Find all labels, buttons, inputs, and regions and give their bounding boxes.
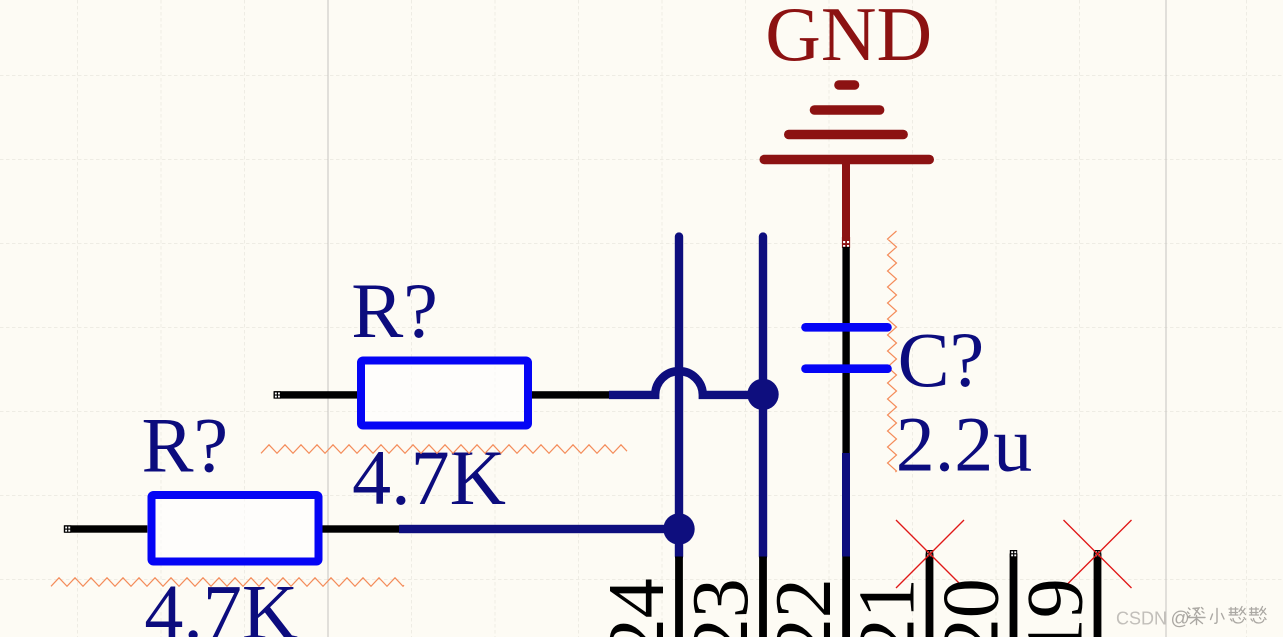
wire pin 24 net vertical (navy) <box>675 237 683 557</box>
svg-text:C?: C? <box>898 316 985 403</box>
junction at R1/pin23 <box>747 379 778 410</box>
svg-text:21: 21 <box>844 578 932 637</box>
wire cap bottom to pin 22 (navy) <box>842 453 850 557</box>
svg-text:@: @ <box>1171 608 1190 629</box>
pin 20 endpoint marker <box>1010 550 1017 557</box>
svg-text:4.7K: 4.7K <box>352 434 506 521</box>
wire pin 23 net vertical (navy) <box>759 237 767 557</box>
no-ERC cross on pin 21 <box>896 520 964 588</box>
pin 22 lead (black) <box>842 557 850 637</box>
no-ERC cross on pin 19 <box>1064 520 1132 588</box>
wire GND net vertical (black) <box>842 247 849 453</box>
pin 19 endpoint marker <box>1094 550 1101 557</box>
resistor R1 body <box>361 361 528 426</box>
wire R1 right to junction (navy) with hop over pin24 wire <box>609 371 763 395</box>
svg-text:R?: R? <box>142 402 229 489</box>
svg-text:24: 24 <box>593 578 681 637</box>
svg-text:2.2u: 2.2u <box>896 401 1033 488</box>
svg-text:22: 22 <box>760 578 848 637</box>
svg-text:19: 19 <box>1012 578 1100 637</box>
pin 20 lead (black) <box>1010 554 1018 637</box>
svg-text:CSDN: CSDN <box>1116 608 1167 628</box>
junction marker on GND stem <box>842 237 850 248</box>
squiggle right of capacitor <box>888 231 897 472</box>
watermark hanzi xiao <box>1211 609 1225 624</box>
wire R2 right (black) <box>322 525 399 532</box>
wire R1 right (black) <box>531 391 609 398</box>
pin 23 lead (black) <box>759 557 767 637</box>
svg-text:23: 23 <box>677 578 765 637</box>
pin 21 lead (black) <box>926 554 934 637</box>
svg-text:R?: R? <box>351 267 438 354</box>
pin 24 lead (black) <box>675 557 683 637</box>
watermark hanzi liang <box>1188 608 1206 625</box>
pin 21 endpoint marker <box>926 550 933 557</box>
power port GND <box>764 0 932 238</box>
junction at pin24 net <box>663 513 694 544</box>
resistor R2 body <box>152 495 319 562</box>
wire R2 right to junction (navy) <box>399 525 679 533</box>
pin 19 lead (black) <box>1094 554 1102 637</box>
endpoint marker wire R2 left <box>64 525 71 532</box>
wire R1 left (black) <box>274 391 358 398</box>
wire R2 left (black) <box>64 525 147 532</box>
capacitor C? <box>806 327 888 368</box>
svg-text:GND: GND <box>765 0 932 77</box>
svg-text:20: 20 <box>928 578 1016 637</box>
svg-text:4.7K: 4.7K <box>144 569 298 637</box>
watermark hanzi han 1 <box>1229 607 1246 624</box>
watermark hanzi han 2 <box>1250 607 1267 624</box>
squiggle under R2 value <box>51 578 404 587</box>
endpoint marker wire R1 left <box>274 391 281 398</box>
squiggle under R1 value <box>261 445 627 454</box>
